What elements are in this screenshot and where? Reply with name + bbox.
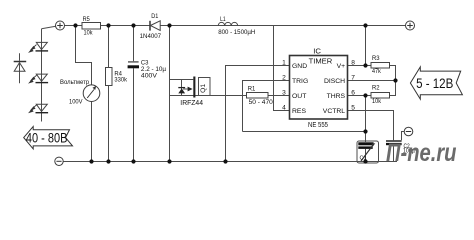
svg-text:10k: 10k (372, 98, 381, 105)
svg-text:R2: R2 (372, 85, 380, 92)
svg-text:5: 5 (351, 104, 355, 111)
svg-text:RES: RES (292, 108, 306, 115)
svg-text:IRFZ44: IRFZ44 (180, 100, 203, 107)
svg-text:4: 4 (282, 104, 286, 111)
svg-text:3: 3 (282, 89, 286, 96)
svg-text:7: 7 (351, 74, 355, 81)
svg-text:V+: V+ (337, 63, 346, 70)
svg-text:400V: 400V (141, 73, 157, 80)
svg-text:THRS: THRS (327, 93, 346, 100)
svg-text:50 - 470: 50 - 470 (249, 99, 273, 106)
svg-text:GND: GND (292, 63, 307, 70)
svg-text:OUT: OUT (292, 93, 306, 100)
svg-text:1N4007: 1N4007 (140, 33, 162, 40)
svg-text:NE 555: NE 555 (308, 122, 328, 129)
svg-text:R1: R1 (248, 85, 256, 92)
svg-text:47k: 47k (372, 68, 381, 75)
svg-text:R5: R5 (83, 16, 90, 23)
svg-text:100V: 100V (69, 98, 83, 105)
svg-text:10k: 10k (84, 29, 93, 36)
svg-text:1: 1 (282, 59, 286, 66)
svg-text:П-ne.ru: П-ne.ru (386, 139, 457, 167)
svg-text:Вольтметр: Вольтметр (60, 79, 89, 86)
svg-text:TRIG: TRIG (292, 78, 308, 85)
svg-text:D1: D1 (151, 13, 158, 20)
svg-text:6: 6 (351, 89, 355, 96)
svg-text:40 - 80В: 40 - 80В (26, 130, 68, 145)
svg-text:2: 2 (282, 74, 286, 81)
svg-text:L1: L1 (220, 16, 226, 23)
svg-text:DISCH: DISCH (324, 78, 345, 85)
svg-text:5 - 12В: 5 - 12В (416, 76, 453, 91)
svg-text:TIMER: TIMER (309, 57, 333, 66)
svg-text:Q1: Q1 (200, 84, 207, 93)
svg-text:8: 8 (351, 59, 355, 66)
svg-text:800 - 1500µH: 800 - 1500µH (218, 29, 255, 36)
svg-text:330k: 330k (114, 77, 127, 84)
svg-text:IC: IC (313, 46, 321, 55)
svg-text:VCTRL: VCTRL (323, 108, 346, 115)
svg-text:R3: R3 (372, 55, 380, 62)
